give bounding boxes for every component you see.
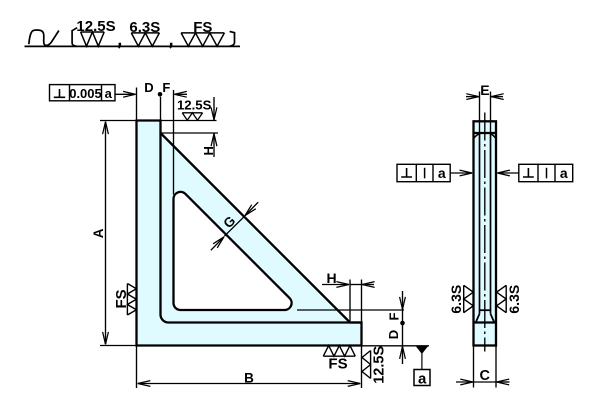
6.3S mark side right [497,285,507,312]
dim H bottom middle [350,284,362,286]
ext bottom edge right [362,345,430,347]
6.3S mark side left [464,285,474,312]
label F right [387,312,402,320]
datum triangle [416,346,428,354]
dim C ext left [473,347,475,388]
label A [91,228,106,238]
dim DF right middle [402,310,404,346]
triangles 12.5S [81,32,105,46]
ext line cutout left up [173,90,175,195]
front view body [137,121,362,346]
ext cutout bottom right [297,309,404,311]
web right edge [490,134,492,314]
svg-text:H: H [201,146,216,155]
svg-text:12.5S: 12.5S [372,346,388,384]
comma 1 [118,43,121,49]
ext hyp start right [161,132,219,134]
svg-text:FS: FS [113,289,130,308]
datum stem [421,354,423,370]
label D right [386,330,401,339]
ext right end up [361,280,363,323]
dim F right arrow down [402,291,404,309]
label 6.3S left [448,285,464,314]
centerline [484,113,486,352]
svg-text:D: D [144,80,153,95]
ext line inner leg up [160,97,162,121]
inner leg edges with fillet [161,133,362,323]
dot node DF right [400,321,405,326]
dim E left arrow [466,96,479,98]
web bottom flare right [491,314,495,323]
H top arrow down [213,97,215,120]
ext left edge down [136,347,138,389]
H top arrow up [213,134,215,157]
open paren [72,28,77,47]
svg-text:E: E [480,82,489,98]
side top step line [474,132,497,134]
FS mark left [127,284,136,316]
svg-text:6.3S: 6.3S [448,285,464,314]
fcf frame front [50,85,116,101]
dim E ext left [479,92,481,134]
dim G middle [224,216,244,236]
dim G lower arrow [211,237,224,250]
label FS left [113,289,130,308]
dim C ext right [495,347,497,388]
12.5S mark right [362,351,371,379]
triangles 6.3S [131,33,159,46]
dim C right arrow [497,381,510,383]
web top flare left [474,134,479,138]
ext line left edge up [136,88,138,121]
svg-text:F: F [162,80,170,95]
surface-note baseline [25,45,241,47]
fcf frame side right [519,164,573,181]
fcf leader arrow [115,93,136,95]
svg-text:C: C [480,368,491,384]
dim H bottom right arrow [362,284,374,286]
side leg top face line [474,321,497,323]
F arrow [174,93,187,95]
web left edge [479,134,481,314]
dim H bottom left arrow [322,284,349,286]
svg-text:B: B [244,370,254,385]
fcf side left leader [450,172,472,174]
svg-text:0.005: 0.005 [69,86,102,101]
dim A [105,122,107,345]
web top flare right [491,134,496,138]
dim E ext right [490,92,492,134]
surface-note squiggle [29,30,59,45]
fcf frame side left [397,164,450,181]
ext hyp end up [349,280,351,322]
svg-text:6.3S: 6.3S [506,285,522,314]
triangles 12.5S top [182,113,202,120]
label G [220,213,238,231]
dot node D F [158,92,163,97]
ext right end down [361,347,363,389]
FS mark bottom [323,346,355,357]
label H top [201,146,216,155]
svg-text:a: a [438,165,446,181]
svg-text:H: H [326,270,336,286]
datum box a [414,370,430,386]
web hole bottom edge [480,309,491,311]
ext top face right [161,120,217,122]
svg-text:a: a [418,370,427,387]
dim C middle [474,381,497,383]
dim D right arrow up [402,346,404,364]
triangles FS [181,33,224,46]
dim E right arrow [491,96,503,98]
comma 2 [170,43,173,49]
svg-text:F: F [387,312,402,320]
dim C left arrow [456,381,473,383]
label 12.5S right [372,346,388,384]
side view body [474,121,497,345]
label 6.3S right [506,285,522,314]
svg-text:12.5S: 12.5S [177,98,212,113]
svg-text:a: a [560,165,568,181]
svg-text:FS: FS [328,355,347,372]
web bottom flare left [476,314,480,323]
dim G upper arrow [245,202,258,215]
svg-text:A: A [91,228,106,238]
ext bottom left for A [100,345,137,347]
close paren [230,31,235,46]
fcf side right leader [497,172,518,174]
triangular cutout [173,192,291,310]
svg-text:D: D [386,330,401,339]
dim B [138,383,360,385]
ext top left for A [100,120,137,122]
svg-text:a: a [105,86,113,101]
